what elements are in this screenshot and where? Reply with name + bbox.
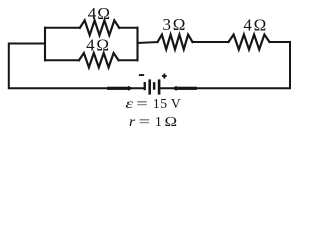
- battery short plate 2: [153, 82, 156, 90]
- battery emf label: epsilon = 15 V: [125, 96, 180, 111]
- svg-text:=: =: [136, 96, 148, 111]
- wire: bottom-right rail, right rail and top-right lead: [160, 42, 290, 88]
- resistor R3 3 ohm: [158, 35, 193, 50]
- svg-text:=: =: [139, 114, 151, 129]
- wire: box top edge left lead: [45, 27, 80, 29]
- current arrow on bottom-right wire: [172, 86, 197, 91]
- battery minus sign: [139, 74, 144, 76]
- wire: box bottom edge right lead: [119, 59, 138, 61]
- svg-text:4Ω: 4Ω: [86, 35, 109, 54]
- node: parallel box right edge: [136, 28, 138, 60]
- battery tall plate 2 (positive side): [158, 79, 161, 94]
- svg-text:15: 15: [153, 96, 168, 111]
- wire: from box right edge to 3-ohm resistor: [138, 42, 158, 43]
- svg-text:Ω: Ω: [165, 115, 178, 130]
- svg-text:V: V: [171, 96, 181, 111]
- svg-text:3Ω: 3Ω: [163, 15, 186, 34]
- wire: box bottom edge left lead: [45, 59, 79, 61]
- resistor R4 4 ohm (series, right): [229, 35, 270, 50]
- wire: box top edge right lead: [119, 27, 137, 29]
- svg-text:4Ω: 4Ω: [88, 4, 110, 23]
- battery tall plate 1: [148, 79, 151, 94]
- current arrow on bottom-left wire: [107, 86, 133, 91]
- wire: between 3-ohm and right 4-ohm resistor: [193, 41, 229, 43]
- battery cell plates: [139, 74, 167, 95]
- svg-text:4Ω: 4Ω: [243, 16, 266, 35]
- battery plus sign: [162, 75, 167, 77]
- resistor R2 4 ohm (bottom branch of parallel pair): [79, 53, 119, 67]
- node: parallel box left edge: [44, 28, 46, 60]
- resistor R1 4 ohm (top branch of parallel pair): [80, 20, 119, 35]
- svg-text:r: r: [129, 115, 136, 129]
- battery short plate 1 (negative side): [144, 82, 146, 90]
- battery internal resistance label: r = 1 ohm: [129, 114, 177, 130]
- wire: left stub from parallel box to left rail: [9, 44, 144, 89]
- svg-text:ε: ε: [125, 96, 133, 111]
- svg-text:1: 1: [155, 114, 162, 129]
